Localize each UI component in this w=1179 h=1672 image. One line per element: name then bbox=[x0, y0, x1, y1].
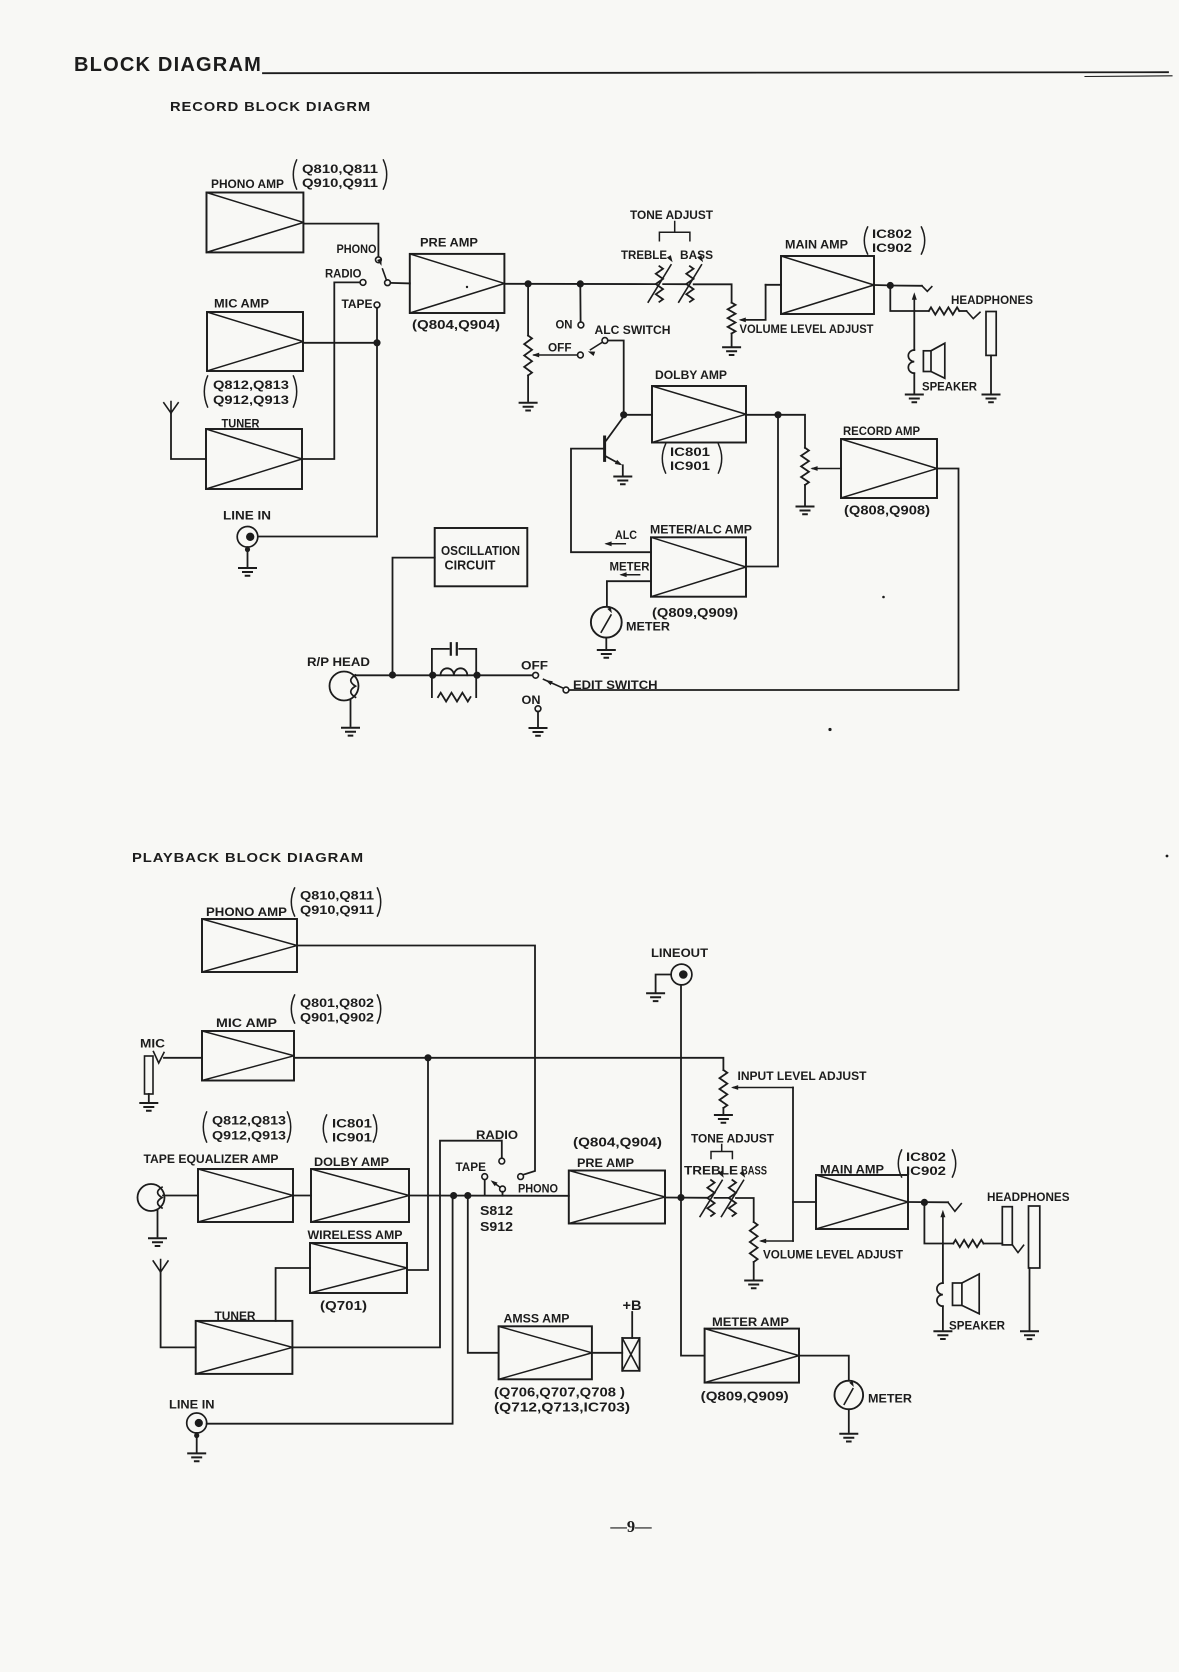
wire node down to meter/alc amp output bbox=[746, 415, 778, 567]
potentiometer TREBLE (playback) bbox=[707, 1180, 714, 1216]
wire node down to speaker line (playback) bbox=[924, 1202, 953, 1243]
svg-text:METER AMP: METER AMP bbox=[712, 1315, 789, 1329]
wire meter to ground (playback) bbox=[848, 1409, 850, 1432]
svg-text:(Q809,Q909): (Q809,Q909) bbox=[652, 606, 738, 620]
ground below meter bbox=[598, 650, 615, 658]
svg-text:Q810,Q811: Q810,Q811 bbox=[302, 162, 378, 176]
svg-text:TAPE: TAPE bbox=[342, 297, 373, 311]
wire headphone jack to ground bbox=[990, 355, 992, 392]
tone adjust bracket bbox=[659, 222, 690, 241]
svg-text:VOLUME LEVEL ADJUST: VOLUME LEVEL ADJUST bbox=[763, 1248, 903, 1262]
svg-text:IC802: IC802 bbox=[872, 227, 912, 241]
amp PRE AMP (playback) bbox=[569, 1171, 665, 1224]
svg-text:Q812,Q813: Q812,Q813 bbox=[213, 378, 289, 392]
svg-text:PRE AMP: PRE AMP bbox=[420, 236, 478, 250]
svg-text:HEADPHONES: HEADPHONES bbox=[987, 1190, 1070, 1204]
potentiometer record level bbox=[801, 448, 809, 485]
svg-text:ON: ON bbox=[522, 693, 541, 707]
svg-text:TONE ADJUST: TONE ADJUST bbox=[630, 208, 713, 222]
svg-text:ON: ON bbox=[556, 318, 573, 332]
ground below line-in jack bbox=[239, 568, 256, 576]
amp MIC AMP (record) bbox=[207, 312, 303, 371]
switch lever edit bbox=[544, 679, 564, 688]
wire pre amp output line (playback) bbox=[665, 1197, 707, 1199]
svg-text:PHONO: PHONO bbox=[518, 1182, 558, 1196]
switch lever pole to TAPE (playback) bbox=[493, 1182, 500, 1187]
svg-text:OFF: OFF bbox=[548, 341, 572, 355]
wire ALC pole to dolby input node bbox=[608, 341, 624, 415]
record/play head symbol (playback) bbox=[138, 1184, 165, 1211]
wire antenna to tuner input bbox=[171, 413, 206, 459]
junction dolby output node bbox=[775, 412, 781, 418]
wire emitter to ground bbox=[622, 465, 624, 475]
svg-text:(Q712,Q713,IC703): (Q712,Q713,IC703) bbox=[494, 1401, 630, 1415]
node OFF contact (ALC switch) bbox=[578, 352, 584, 358]
wire pole stub to line bbox=[502, 1192, 504, 1196]
wire node to headphone jack break bbox=[890, 285, 922, 287]
potentiometer TREBLE (record) bbox=[656, 266, 663, 302]
svg-text:TREBLE: TREBLE bbox=[684, 1164, 738, 1178]
wire pole to pre amp input bbox=[390, 282, 409, 285]
wire transistor base to ALC line bbox=[571, 449, 651, 553]
potentiometer VOLUME LEVEL ADJUST (playback) bbox=[750, 1222, 758, 1262]
svg-text:—9—: —9— bbox=[609, 1517, 652, 1536]
jack break V2 (record) bbox=[967, 311, 981, 319]
svg-text:LINEOUT: LINEOUT bbox=[651, 946, 709, 960]
svg-text:INPUT LEVEL ADJUST: INPUT LEVEL ADJUST bbox=[738, 1069, 867, 1083]
wire volume wiper to main amp input bbox=[742, 285, 766, 320]
node ALC switch pole bbox=[602, 338, 608, 344]
meter M (playback) bbox=[835, 1381, 864, 1410]
svg-text:WIRELESS AMP: WIRELESS AMP bbox=[308, 1228, 403, 1242]
node selector pole (record input switch) bbox=[385, 280, 391, 286]
ground below lineout bbox=[647, 993, 664, 1001]
wire eq amp to dolby amp bbox=[293, 1195, 311, 1197]
svg-text:IC902: IC902 bbox=[872, 241, 912, 255]
wire amss node to amss amp input bbox=[468, 1196, 499, 1353]
svg-text:IC801: IC801 bbox=[670, 445, 710, 459]
wire antenna to tuner (playback) bbox=[161, 1272, 196, 1347]
wire node down to wireless amp output bbox=[407, 1058, 428, 1270]
wire tuner output to RADIO contact bbox=[302, 282, 360, 459]
svg-text:SPEAKER: SPEAKER bbox=[922, 380, 977, 394]
svg-text:(Q804,Q904): (Q804,Q904) bbox=[573, 1136, 662, 1150]
svg-text:ALC: ALC bbox=[615, 528, 637, 542]
svg-text:MIC: MIC bbox=[140, 1037, 165, 1051]
wire phono amp output to PHONO contact bbox=[303, 224, 378, 257]
resistor in bias trap bbox=[438, 693, 471, 702]
box OSCILLATION CIRCUIT bbox=[435, 528, 528, 586]
svg-text:IC801: IC801 bbox=[332, 1117, 372, 1131]
wire input level wiper bbox=[734, 1087, 794, 1089]
record/play head symbol (record) bbox=[330, 672, 359, 701]
svg-text:RECORD BLOCK DIAGRM: RECORD BLOCK DIAGRM bbox=[170, 99, 371, 114]
amp METER/ALC AMP (record) bbox=[651, 537, 746, 596]
junction node at ALC ON branch bbox=[577, 281, 583, 287]
ground below playback volume pot bbox=[745, 1281, 762, 1289]
wire main amp output bbox=[874, 284, 890, 286]
node RADIO contact (playback) bbox=[499, 1158, 505, 1164]
wire lineout jack to ground bbox=[656, 975, 672, 992]
svg-text:BASS: BASS bbox=[741, 1164, 767, 1178]
potentiometer BASS (record) bbox=[686, 266, 693, 302]
svg-text:MAIN AMP: MAIN AMP bbox=[785, 238, 848, 252]
svg-text:IC902: IC902 bbox=[906, 1164, 946, 1178]
amp PRE AMP (record) bbox=[410, 254, 505, 313]
svg-text:DOLBY AMP: DOLBY AMP bbox=[655, 368, 727, 382]
svg-text:PHONO AMP: PHONO AMP bbox=[211, 177, 284, 191]
svg-text:RECORD AMP: RECORD AMP bbox=[843, 424, 920, 438]
svg-text:PHONO: PHONO bbox=[337, 242, 377, 256]
svg-text:+B: +B bbox=[623, 1298, 642, 1313]
wire TAPE contact stub bbox=[484, 1179, 486, 1195]
svg-text:Q801,Q802: Q801,Q802 bbox=[300, 996, 374, 1010]
wire meter output of meter/alc amp bbox=[607, 581, 651, 606]
svg-text:METER: METER bbox=[626, 620, 670, 634]
svg-text:TREBLE: TREBLE bbox=[621, 248, 667, 262]
amp TUNER (playback) bbox=[196, 1321, 293, 1374]
node PHONO contact bbox=[376, 257, 382, 263]
bias trap frame verticals bbox=[431, 649, 433, 697]
svg-text:Q910,Q911: Q910,Q911 bbox=[302, 176, 378, 190]
svg-text:Q901,Q902: Q901,Q902 bbox=[300, 1011, 374, 1025]
junction dolby input node bbox=[621, 412, 627, 418]
wire volume wiper (playback) bbox=[762, 1240, 794, 1242]
svg-text:IC901: IC901 bbox=[670, 459, 710, 473]
svg-text:METER/ALC AMP: METER/ALC AMP bbox=[650, 523, 752, 537]
jack break V (playback) bbox=[948, 1202, 961, 1211]
wire bass pot to volume corner bbox=[694, 284, 732, 302]
wire bus to main amp input bbox=[793, 1201, 816, 1203]
amp MAIN AMP (playback) bbox=[816, 1175, 908, 1229]
node TAPE contact (playback) bbox=[482, 1174, 488, 1180]
wire amss output to lamp bbox=[592, 1352, 622, 1354]
svg-text:Q912,Q913: Q912,Q913 bbox=[212, 1129, 286, 1143]
wire lineout vertical to meter amp bbox=[681, 985, 705, 1356]
node RADIO contact bbox=[360, 280, 366, 286]
wire head to eq amp bbox=[163, 1195, 198, 1197]
ground below input level pot bbox=[715, 1115, 732, 1123]
wire line-in to ground (playback) bbox=[196, 1433, 198, 1452]
ground below record volume pot bbox=[723, 347, 740, 355]
ground below resistor 528 bbox=[520, 403, 537, 411]
wire meter amp output to meter (playback) bbox=[799, 1356, 849, 1381]
wire mic jack to mic amp bbox=[164, 1057, 202, 1059]
ground below transistor bbox=[614, 477, 631, 485]
node ON contact (ALC switch) bbox=[578, 322, 584, 328]
svg-text:Q812,Q813: Q812,Q813 bbox=[212, 1114, 286, 1128]
bias trap network right node bbox=[474, 672, 480, 678]
switch lever ALC pole to OFF bbox=[591, 342, 603, 350]
svg-text:R/P HEAD: R/P HEAD bbox=[307, 655, 370, 669]
resistor headphones (record) bbox=[929, 307, 960, 314]
potentiometer BASS (playback) bbox=[729, 1180, 736, 1216]
lamp/solenoid +B box bbox=[622, 1338, 639, 1371]
svg-text:TUNER: TUNER bbox=[222, 417, 260, 431]
amp RECORD AMP (record) bbox=[841, 439, 937, 498]
svg-text:AMSS AMP: AMSS AMP bbox=[504, 1312, 570, 1326]
svg-text:PLAYBACK BLOCK DIAGRAM: PLAYBACK BLOCK DIAGRAM bbox=[132, 850, 364, 865]
svg-text:OSCILLATION: OSCILLATION bbox=[441, 544, 520, 558]
wire node down to speaker branch bbox=[890, 286, 929, 312]
amp MAIN AMP (record) bbox=[781, 256, 874, 314]
wire node to dolby amp input bbox=[624, 414, 652, 416]
wire mic amp output bbox=[303, 342, 377, 344]
speaker coil (playback) bbox=[942, 1244, 944, 1284]
svg-text:SPEAKER: SPEAKER bbox=[949, 1319, 1005, 1333]
node PHONO contact (playback) bbox=[518, 1174, 524, 1180]
ground below playback head bbox=[149, 1238, 166, 1246]
headphone jack plug (record) bbox=[986, 312, 996, 356]
junction mic/tape node bbox=[374, 340, 380, 346]
wire record amp input with wiper arrow bbox=[813, 468, 842, 470]
speaker symbol (playback) bbox=[953, 1283, 962, 1305]
amp METER AMP bbox=[705, 1329, 799, 1383]
wire mic jack to ground bbox=[148, 1094, 150, 1102]
wire wireless input to tuner box bbox=[276, 1268, 310, 1321]
svg-text:METER: METER bbox=[610, 560, 650, 574]
svg-text:PHONO AMP: PHONO AMP bbox=[206, 905, 287, 919]
wire tuner output up to RADIO contact (playback) bbox=[292, 1141, 501, 1348]
svg-text:MIC AMP: MIC AMP bbox=[214, 297, 269, 311]
svg-text:MAIN AMP: MAIN AMP bbox=[820, 1163, 884, 1177]
speck artifacts from scan bbox=[828, 728, 831, 731]
svg-text:TAPE EQUALIZER AMP: TAPE EQUALIZER AMP bbox=[144, 1152, 279, 1166]
junction line-in node bbox=[451, 1193, 457, 1199]
amp TAPE EQUALIZER AMP bbox=[198, 1169, 293, 1222]
svg-text:(Q809,Q909): (Q809,Q909) bbox=[701, 1390, 789, 1404]
svg-text:TAPE: TAPE bbox=[456, 1160, 487, 1174]
svg-text:DOLBY AMP: DOLBY AMP bbox=[314, 1155, 389, 1169]
wire head to ground (playback) bbox=[157, 1210, 159, 1237]
amp PHONO AMP (record) bbox=[207, 193, 304, 253]
wire headphone jack to ground (playback) bbox=[1029, 1268, 1031, 1330]
wire dolby output main line to pre amp bbox=[409, 1195, 569, 1197]
wire R/P head line bbox=[354, 674, 533, 676]
svg-text:CIRCUIT: CIRCUIT bbox=[445, 559, 496, 573]
potentiometer INPUT LEVEL ADJUST bbox=[720, 1070, 728, 1108]
ground below R/P head bbox=[342, 728, 359, 736]
headphone jack contact 2 (playback) bbox=[1029, 1206, 1040, 1268]
wire between playback tone pots bbox=[715, 1197, 729, 1199]
svg-text:VOLUME LEVEL ADJUST: VOLUME LEVEL ADJUST bbox=[740, 322, 874, 336]
wire mic amp output to input level pot bbox=[294, 1058, 723, 1070]
inductor in bias trap bbox=[441, 668, 468, 675]
bias trap network left node bbox=[430, 672, 436, 678]
svg-text:PRE AMP: PRE AMP bbox=[577, 1156, 634, 1170]
amp MIC AMP (playback) bbox=[202, 1031, 294, 1081]
svg-text:S912: S912 bbox=[480, 1219, 513, 1234]
antenna (playback) bbox=[153, 1260, 168, 1273]
junction oscillation node bbox=[389, 672, 395, 678]
svg-text:ALC SWITCH: ALC SWITCH bbox=[595, 323, 671, 337]
tone adjust bracket (playback) bbox=[711, 1145, 732, 1159]
svg-text:IC802: IC802 bbox=[906, 1150, 946, 1164]
amp DOLBY AMP (record) bbox=[652, 386, 746, 443]
amp AMSS AMP bbox=[499, 1326, 592, 1379]
svg-text:TONE ADJUST: TONE ADJUST bbox=[691, 1132, 774, 1146]
ground below mic jack bbox=[140, 1103, 157, 1111]
svg-text:MIC AMP: MIC AMP bbox=[216, 1016, 277, 1030]
svg-text:TUNER: TUNER bbox=[215, 1309, 256, 1323]
wire line-in jack to ground bbox=[247, 547, 249, 566]
wire line-in jack to node (playback) bbox=[207, 1196, 453, 1424]
svg-text:LINE IN: LINE IN bbox=[223, 509, 271, 523]
jack break V (record) bbox=[922, 286, 932, 292]
wire oscillation circuit to head line bbox=[393, 558, 435, 675]
resistor to ground below node 528 bbox=[527, 285, 529, 336]
svg-text:RADIO: RADIO bbox=[325, 267, 362, 281]
ground below line-in (playback) bbox=[188, 1453, 205, 1461]
svg-text:(Q804,Q904): (Q804,Q904) bbox=[412, 318, 500, 332]
amp TUNER (record) bbox=[206, 429, 302, 489]
wire TAPE contact down / mic output junction / line-in bbox=[376, 308, 378, 537]
svg-text:(Q701): (Q701) bbox=[320, 1299, 367, 1313]
svg-text:S812: S812 bbox=[480, 1203, 513, 1218]
capacitor in bias trap bbox=[432, 648, 476, 650]
wire ON contact to ground bbox=[537, 711, 539, 726]
title rule bbox=[263, 72, 1168, 73]
node selector pole (playback) bbox=[500, 1186, 506, 1192]
junction mic/wireless node bbox=[425, 1055, 431, 1061]
arrow jack moving contact bbox=[913, 296, 915, 311]
arrow jack moving contact (playback) bbox=[942, 1214, 944, 1244]
svg-text:LINE IN: LINE IN bbox=[169, 1398, 215, 1412]
wire between treble and bass pots bbox=[663, 283, 686, 285]
svg-text:RADIO: RADIO bbox=[476, 1128, 518, 1142]
svg-text:Q810,Q811: Q810,Q811 bbox=[300, 889, 374, 903]
wire wiper bus vertical bbox=[792, 1088, 794, 1242]
wire phono amp output to PHONO contact (playback) bbox=[297, 946, 535, 1175]
transistor collector bbox=[606, 417, 624, 441]
ground below headphone jack (record) bbox=[983, 395, 1000, 403]
ground below meter (playback) bbox=[840, 1434, 857, 1442]
ground below record-level pot bbox=[797, 507, 814, 515]
ground below edit ON bbox=[530, 728, 547, 736]
svg-text:EDIT SWITCH: EDIT SWITCH bbox=[573, 678, 658, 692]
ground below speaker (record) bbox=[906, 395, 923, 403]
node EDIT pole contact bbox=[563, 687, 569, 693]
wire line-in to tape node bbox=[258, 536, 377, 538]
transistor Q (ALC) base bar bbox=[603, 437, 606, 460]
wire pre amp output main line bbox=[504, 283, 655, 285]
switch lever pole to PHONO bbox=[383, 269, 387, 280]
svg-text:(Q808,Q908): (Q808,Q908) bbox=[844, 504, 930, 518]
meter M (record) bbox=[591, 607, 622, 638]
junction node at resistor branch bbox=[525, 281, 531, 287]
resistor headphones (playback) bbox=[953, 1240, 983, 1247]
wire head to ground bbox=[350, 700, 352, 727]
node EDIT OFF contact bbox=[533, 672, 539, 678]
svg-text:(Q706,Q707,Q708 ): (Q706,Q707,Q708 ) bbox=[494, 1386, 625, 1400]
amp WIRELESS AMP bbox=[310, 1243, 407, 1293]
junction main amp output node bbox=[887, 282, 893, 288]
wire bass to volume corner (playback) bbox=[736, 1198, 754, 1222]
wire node 580 down to ALC switch ON contact bbox=[579, 286, 581, 323]
svg-text:OFF: OFF bbox=[521, 659, 549, 673]
svg-text:Q910,Q911: Q910,Q911 bbox=[300, 903, 374, 917]
wire record amp output to edit switch line bbox=[569, 469, 959, 691]
svg-text:Q912,Q913: Q912,Q913 bbox=[213, 393, 289, 407]
junction lineout node bbox=[678, 1195, 684, 1201]
transistor emitter with arrow bbox=[606, 457, 619, 464]
wire meter to ground bbox=[605, 638, 607, 649]
ground below speaker (playback) bbox=[934, 1331, 951, 1339]
amp PHONO AMP (playback) bbox=[202, 919, 297, 972]
node EDIT ON contact bbox=[535, 706, 541, 712]
headphone jack contact 1 (playback) bbox=[1002, 1207, 1012, 1245]
svg-text:BLOCK DIAGRAM: BLOCK DIAGRAM bbox=[74, 53, 262, 76]
antenna (record) bbox=[164, 402, 178, 414]
svg-text:METER: METER bbox=[868, 1392, 912, 1406]
svg-text:IC901: IC901 bbox=[332, 1131, 372, 1145]
junction amss node bbox=[465, 1193, 471, 1199]
jack break V2 (playback) bbox=[1012, 1245, 1023, 1253]
speaker symbol (record) bbox=[923, 351, 931, 372]
potentiometer VOLUME LEVEL ADJUST (record) bbox=[728, 303, 736, 334]
speaker coil (record) bbox=[913, 311, 915, 350]
wire dolby output to record-level pot bbox=[746, 415, 805, 448]
node TAPE contact bbox=[374, 302, 380, 308]
amp DOLBY AMP (playback) bbox=[311, 1169, 409, 1222]
wire +B to lamp bbox=[631, 1312, 633, 1338]
svg-text:BASS: BASS bbox=[680, 248, 713, 262]
junction main amp output node (playback) bbox=[921, 1199, 927, 1205]
wire OFF contact toward resistor with arrow bbox=[534, 354, 578, 356]
ground below headphone jack (playback) bbox=[1021, 1331, 1038, 1339]
wire main amp output (playback) bbox=[908, 1201, 948, 1203]
svg-text:HEADPHONES: HEADPHONES bbox=[951, 293, 1033, 307]
